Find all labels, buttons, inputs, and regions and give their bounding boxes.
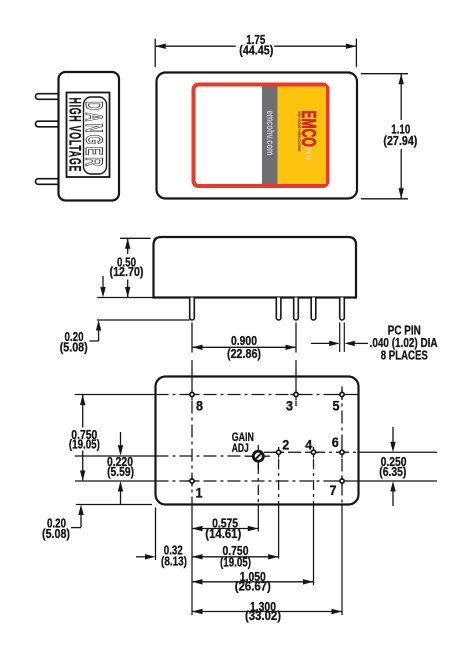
dimension 0.750 (19.05) bottom (192, 556, 279, 558)
module body (top view) (157, 73, 358, 199)
pin diameter extension lines (339, 323, 341, 353)
pin 4 (side view) (311, 298, 316, 321)
pin 7 (337, 476, 348, 487)
dimension 0.20 (5.08) pins (102, 276, 104, 291)
pin 3 (291, 389, 302, 400)
svg-text:(8.13): (8.13) (161, 553, 187, 568)
centerline gain adj vertical (257, 464, 259, 505)
pin 5/6/7 (side view, right) (340, 298, 345, 320)
centerline pin2 vertical (278, 459, 280, 505)
EMCO label red border (192, 83, 330, 189)
dimension 1.050 (26.67) (192, 581, 314, 583)
svg-text:1: 1 (196, 486, 203, 501)
module body (end view) (59, 72, 120, 201)
label yellow field (278, 87, 327, 185)
pin 5 (337, 389, 348, 400)
label white field (196, 87, 327, 185)
dimension 1.10 (27.94) (361, 73, 408, 75)
svg-text:8 PLACES: 8 PLACES (381, 347, 428, 362)
svg-text:5: 5 (333, 399, 340, 414)
pin 6 (337, 447, 348, 458)
svg-text:(5.08): (5.08) (60, 340, 88, 355)
dimension 0.750 (19.05) left (82, 395, 84, 428)
dimension 0.50 (12.70) (120, 237, 151, 239)
dimension .040 (1.02) DIA pin (311, 342, 330, 344)
centerline bottom row horizontal (75, 480, 156, 482)
body bottom edge extension line (97, 297, 153, 299)
svg-text:(5.08): (5.08) (42, 526, 70, 541)
svg-text:6: 6 (332, 435, 339, 450)
dimension 0.575 (14.61) (192, 528, 258, 530)
extension line package left edge (bottom) (155, 508, 157, 561)
centerline pin3 vertical (295, 360, 297, 377)
svg-text:(6.35): (6.35) (379, 464, 406, 479)
svg-text:(5.59): (5.59) (107, 464, 134, 479)
pin 4 (308, 447, 319, 458)
pin (end view, middle) (35, 121, 59, 127)
pin 3 (side view) (294, 298, 299, 320)
svg-text:2: 2 (282, 437, 289, 452)
centerline top row horizontal (75, 394, 156, 396)
svg-text:emcohv.com: emcohv.com (264, 111, 275, 156)
svg-text:(22.86): (22.86) (227, 346, 261, 361)
DANGER outline frame (84, 97, 107, 174)
dimension 0.900 (22.86) (191, 323, 193, 353)
module body (bottom view) (156, 377, 359, 505)
pin (end view, bottom) (36, 179, 60, 185)
dimension 0.20 (5.08) bottom left (76, 504, 152, 506)
label gray strip (262, 87, 278, 185)
centerline pin1/8 vertical (191, 360, 193, 377)
centerline pin4 vertical (313, 459, 315, 505)
svg-text:(44.45): (44.45) (239, 43, 273, 58)
svg-text:(33.02): (33.02) (245, 608, 281, 623)
svg-text:HIGH VOLTAGE POWER SOLUTIONS: HIGH VOLTAGE POWER SOLUTIONS (297, 112, 301, 152)
pin 8 (187, 389, 198, 400)
gain adj trimmer (245, 445, 269, 469)
dimension 0.32 (8.13) (136, 556, 146, 558)
centerline pins 2-4-6 row horizontal (264, 451, 359, 453)
dimension 1.300 (33.02) (192, 611, 342, 613)
module body (side view) (154, 237, 357, 298)
pin (end view, top) (35, 94, 59, 100)
pin 1 (side view) (190, 298, 195, 321)
svg-text:(12.70): (12.70) (110, 264, 144, 279)
dimension 1.75 (44.45) (154, 39, 156, 67)
svg-text:HIGH VOLTAGE: HIGH VOLTAGE (66, 98, 85, 173)
svg-text:(26.67): (26.67) (235, 579, 271, 594)
danger label box (67, 93, 110, 178)
dimension 0.250 (6.35) right (392, 427, 394, 443)
svg-text:4: 4 (305, 437, 312, 452)
dimension 0.220 (5.59) (120, 432, 122, 446)
svg-text:hv: hv (304, 147, 313, 162)
svg-text:(27.94): (27.94) (383, 133, 417, 148)
svg-text:7: 7 (330, 483, 337, 498)
pin end extension line (97, 319, 190, 321)
svg-text:8: 8 (196, 399, 203, 414)
centerline pins 5/6/7 vertical (341, 387, 343, 505)
pin 2 (273, 447, 284, 458)
svg-text:ADJ: ADJ (232, 441, 249, 455)
svg-text:3: 3 (286, 399, 293, 414)
svg-text:(19.05): (19.05) (220, 554, 251, 569)
pin 2 (side view) (276, 298, 281, 321)
pin 1 (187, 476, 198, 487)
svg-text:(14.61): (14.61) (205, 526, 241, 541)
svg-text:(19.05): (19.05) (69, 436, 100, 451)
centerline gain row horizontal (75, 455, 156, 457)
